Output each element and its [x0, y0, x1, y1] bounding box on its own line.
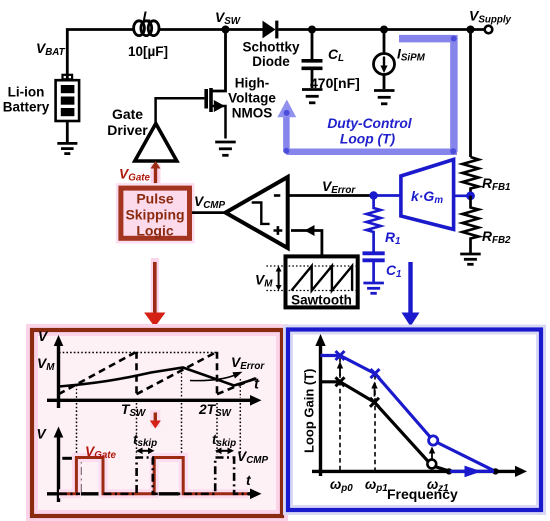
svg-text:Driver: Driver: [107, 122, 148, 138]
resistor R1 (blue): [367, 196, 381, 253]
black gain curve: [321, 382, 451, 472]
svg-text:Gate: Gate: [112, 106, 143, 122]
duty-control loop corner dots: [451, 36, 457, 42]
wire: battery top to inductor: [67, 30, 133, 80]
black X markers: [336, 377, 380, 407]
wire: ISiPM to ground: [383, 75, 386, 90]
upper plot t axis: [47, 399, 252, 402]
svg-text:Logic: Logic: [136, 223, 174, 239]
small red arrow between plots: [150, 410, 160, 427]
wire VCMP: [192, 211, 226, 214]
dashed guide wp1: [374, 375, 376, 470]
axis dots: [446, 468, 452, 474]
pulse-level tick: [62, 457, 72, 460]
capacitor C1 (blue): [363, 251, 385, 255]
battery (Li-ion): [56, 75, 80, 121]
wire: sawtooth to comparator plus with arrow: [291, 231, 322, 257]
wire: rail to ISiPM: [383, 30, 386, 54]
red annotation arrow to waveform box: [151, 258, 159, 322]
up arrow wp0: [339, 366, 341, 376]
sawtooth waveform: [292, 266, 353, 291]
black O marker: [427, 460, 436, 469]
VError solid curve: [59, 368, 257, 387]
node VSW: [222, 26, 230, 34]
upper plot V axis: [57, 340, 60, 408]
wire: inductor to VSW: [159, 28, 263, 31]
blue X markers: [336, 351, 380, 378]
svg-text:Sawtooth: Sawtooth: [291, 293, 352, 308]
resistor RFB1: [463, 157, 479, 196]
node CL junction: [308, 26, 316, 34]
svg-text:Li-ion: Li-ion: [8, 85, 45, 100]
capacitor CL: [302, 59, 323, 63]
svg-text:Loop Gain (T): Loop Gain (T): [302, 369, 317, 453]
node VError (blue dot): [369, 191, 377, 199]
svg-text:Pulse: Pulse: [136, 191, 174, 207]
waveform box (dark red): [32, 330, 282, 516]
svg-text:Battery: Battery: [3, 100, 50, 115]
wire: CL to ground: [311, 70, 314, 88]
up arrow wp1: [374, 386, 376, 397]
dashed guide wp0: [339, 358, 341, 470]
transconductance amp kGm (blue trapezoid): [401, 160, 454, 230]
wire: rail to CL: [311, 30, 314, 60]
VGate waveform (dark red): [59, 458, 248, 494]
node VSupply: [467, 26, 475, 34]
VCMP waveform pulses B,C and baseline (black dash-dot): [59, 492, 80, 495]
blue gain curve: [321, 356, 496, 472]
comparator minus input: [274, 194, 280, 197]
ground (C1, blue): [363, 283, 384, 293]
comparator plus input: [274, 226, 283, 235]
terminal VSupply (open circle): [485, 26, 493, 34]
VGate red arrow into gate driver: [151, 164, 161, 187]
svg-text:NMOS: NMOS: [232, 106, 273, 121]
svg-text:Schottky: Schottky: [242, 40, 300, 55]
bode X axis: [312, 470, 518, 473]
ground (NMOS source): [215, 142, 236, 155]
comparator hysteresis glyph: [252, 203, 270, 224]
blue axis segment: [450, 470, 494, 473]
dotted vertical guides upper plot: [77, 369, 241, 398]
pulse skipping logic block: [121, 188, 190, 238]
wire: comparator minus input to VError node: [288, 194, 374, 197]
sawtooth dashed waveform upper plot: [59, 352, 258, 395]
wire: battery bottom: [66, 121, 69, 142]
svg-text:10[µF]: 10[µF]: [128, 44, 168, 59]
wire: kGm input from divider (blue): [454, 194, 471, 197]
svg-text:Diode: Diode: [252, 54, 290, 69]
resistor RFB2: [463, 196, 479, 253]
svg-text:Voltage: Voltage: [228, 91, 276, 106]
svg-text:Duty-Control: Duty-Control: [327, 116, 412, 131]
wire: kGm output to VError node (blue): [374, 194, 401, 197]
tskip arrow 1: [139, 450, 153, 452]
gate driver U2 (triangle): [135, 124, 177, 162]
transistor M1 high-voltage NMOS: [156, 88, 226, 139]
schottky diode D1: [263, 21, 276, 39]
blue axis arrowhead: [465, 466, 482, 478]
dotted continuation below axis at TSW / 2TSW: [77, 403, 241, 456]
VM measure arrow: [278, 269, 280, 289]
lower plot t axis: [47, 492, 252, 495]
lower plot V axis: [57, 432, 60, 502]
comparator U3: [226, 177, 288, 248]
VM level dotted line: [59, 352, 218, 354]
wire: VSupply down to RFB1: [469, 30, 472, 158]
current source ISiPM: [374, 54, 395, 75]
svg-text:Loop (T): Loop (T): [340, 132, 396, 147]
duty-control loop wire (periwinkle): [286, 35, 457, 152]
sawtooth generator box: [286, 256, 358, 307]
node ISiPM junction: [380, 26, 388, 34]
up arrow wz1: [431, 451, 433, 459]
svg-text:High-: High-: [235, 76, 270, 91]
wire: diode to VSupply: [278, 28, 488, 31]
bode Y axis: [319, 340, 322, 476]
sawtooth dotted levels: [266, 266, 355, 291]
ground (RFB2): [460, 254, 481, 264]
tskip arrow 2: [218, 450, 232, 452]
inductor L: [134, 21, 159, 36]
ground (battery): [57, 143, 77, 153]
blue annotation arrow to bode box: [408, 262, 412, 314]
wire: VSW down to NMOS drain: [212, 30, 226, 92]
svg-text:L: L: [143, 8, 152, 24]
ground (ISiPM): [374, 91, 395, 104]
VCMP waveform pulse A (black dash-dot, under VGate): [80, 458, 103, 493]
bode box (blue): [288, 330, 541, 511]
svg-text:Skipping: Skipping: [125, 207, 184, 223]
duty-control loop arrowhead: [277, 100, 296, 118]
node divider (blue dot): [466, 191, 475, 200]
ground (CL): [302, 90, 323, 103]
blue O marker: [429, 436, 438, 445]
